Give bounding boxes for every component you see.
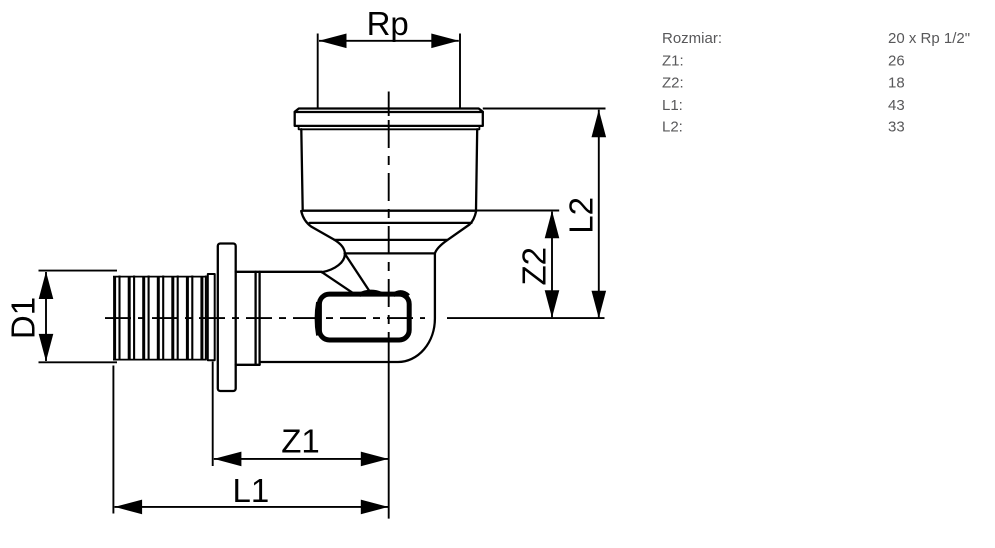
svg-text:Rozmiar:: Rozmiar: (662, 30, 722, 47)
body left edge (301, 129, 302, 210)
svg-text:Z1: Z1 (281, 422, 320, 459)
L2 dimension line (598, 110, 600, 318)
Z1 left arrowhead (214, 452, 242, 467)
rim inner top line (295, 111, 483, 113)
svg-text:Z1:: Z1: (662, 52, 684, 69)
Z1 extension line (212, 362, 214, 467)
neck line 2 (345, 252, 435, 254)
svg-text:33: 33 (888, 118, 905, 135)
L1 dimension line (115, 506, 389, 508)
svg-text:L1: L1 (233, 472, 270, 509)
joint line b (258, 272, 260, 365)
Z1 dimension line (214, 458, 388, 460)
collar ring left of flange (208, 274, 215, 360)
funnel left side with hook arc (301, 211, 345, 272)
shoulder line 2 (310, 222, 472, 224)
Rp right extension line (459, 34, 461, 108)
L1 left arrowhead (115, 500, 143, 515)
Rp dimension line (319, 40, 459, 42)
funnel right side (435, 211, 476, 253)
svg-text:Z2:: Z2: (662, 74, 684, 91)
vertical centerline dash-dot (388, 120, 390, 339)
svg-text:L2: L2 (563, 197, 600, 234)
horizontal centerline dash-dot (105, 317, 425, 319)
D1 top extension line (39, 270, 118, 272)
Rp left extension line (317, 34, 319, 108)
Rp left arrowhead (319, 34, 347, 49)
horizontal centerline solid extension (Z2/L2 bottom extension) (447, 317, 605, 319)
flange (218, 244, 236, 392)
svg-text:D1: D1 (5, 297, 42, 339)
L1 right arrowhead (361, 500, 389, 515)
Z2 bottom arrowhead (545, 290, 560, 318)
ribbed barb section (113, 276, 207, 360)
svg-text:L1:: L1: (662, 97, 683, 114)
bore left bulge (316, 302, 318, 336)
svg-text:Z2: Z2 (516, 247, 553, 286)
shoulder line (303, 210, 477, 212)
L2 top extension line (483, 108, 606, 110)
L2 bottom arrowhead (592, 291, 607, 319)
vertical centerline bottom solid (388, 339, 390, 519)
Z2 top extension line (477, 210, 559, 212)
rib top boundary (113, 276, 207, 278)
rim lower ring line (299, 126, 480, 129)
D1 dimension line (45, 272, 47, 361)
svg-text:Rp: Rp (367, 5, 409, 42)
svg-text:26: 26 (888, 52, 905, 69)
Z1 right arrowhead (361, 452, 389, 467)
svg-text:43: 43 (888, 97, 905, 114)
rim outer (295, 109, 483, 126)
Z2 dimension line (551, 212, 553, 318)
diagonal transition line 2 (323, 273, 353, 293)
D1 top arrowhead (39, 272, 54, 300)
diagonal transition line 1 (345, 254, 370, 292)
bore rounded rectangle (319, 294, 409, 340)
body right edge (476, 129, 477, 210)
pipe top edge right of flange (236, 271, 322, 273)
D1 bottom extension line (39, 361, 118, 363)
vertical centerline top solid (388, 92, 390, 117)
Z2 top arrowhead (545, 211, 560, 239)
bore top bump right (393, 292, 409, 295)
pipe bottom edge collar right of flange (236, 364, 260, 366)
elbow right edge and bottom edge (260, 253, 435, 362)
svg-text:L2:: L2: (662, 118, 683, 135)
rib bottom boundary (113, 359, 207, 361)
bore top bump left (359, 292, 383, 295)
Rp right arrowhead (431, 34, 459, 49)
D1 bottom arrowhead (39, 334, 54, 362)
svg-text:18: 18 (888, 74, 905, 91)
neck line 1 (335, 239, 448, 241)
L2 top arrowhead (592, 110, 607, 138)
L1 extension line (112, 366, 114, 514)
joint line a (254, 272, 256, 365)
svg-text:20 x Rp 1/2": 20 x Rp 1/2" (888, 30, 970, 47)
rib bars (115, 277, 202, 360)
